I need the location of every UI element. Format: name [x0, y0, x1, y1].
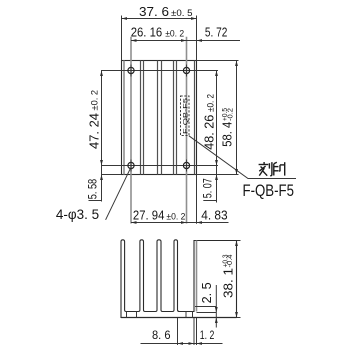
svg-text:F-QB-F5: F-QB-F5 [182, 97, 189, 134]
svg-text:±0. 2: ±0. 2 [166, 211, 185, 221]
svg-text:58. 4: 58. 4 [220, 122, 235, 147]
arrows top view [100, 17, 238, 224]
svg-text:±0. 2: ±0. 2 [90, 90, 100, 111]
svg-text:4-φ3. 5: 4-φ3. 5 [56, 206, 99, 222]
top view fin line d [161, 61, 163, 175]
svg-text:26. 16: 26. 16 [131, 25, 163, 40]
svg-text:2. 5: 2. 5 [200, 282, 214, 303]
dimension line 48.26 / 5.07 [216, 71, 218, 203]
extension line wall outer for 8.6/1.2 [193, 318, 195, 345]
hole centerline right [186, 37, 188, 224]
svg-text:47. 24: 47. 24 [86, 113, 101, 149]
arrow 2.5 top [215, 307, 218, 313]
side view outline with fins [121, 240, 237, 318]
arrows side view [178, 241, 238, 345]
dimension line 27.94 / 4.83 [131, 222, 229, 224]
notch channel1 right [136, 312, 138, 318]
svg-text:1. 2: 1. 2 [200, 328, 215, 342]
svg-text:38. 1: 38. 1 [220, 268, 235, 298]
top view fin line a [140, 61, 142, 175]
arrow 26.16 right [181, 39, 187, 42]
top view inner wall line left [123, 61, 125, 175]
arrow 8.6 left [178, 342, 184, 345]
dimension line 47.24 / 5.58 [101, 71, 103, 202]
svg-text:48. 26: 48. 26 [202, 115, 217, 150]
hole bottom-right [183, 162, 189, 168]
extension line wall inner for 1.2 [196, 318, 198, 345]
side view bottom edge emphasized [121, 317, 237, 319]
tick under 5.07 [203, 200, 216, 202]
arrow 5.72 outside [197, 39, 203, 42]
dimension line 37.6 [122, 18, 197, 20]
arrow 47.24 top [100, 71, 103, 77]
marking area dashed box [181, 96, 190, 136]
tick under 2.5 [195, 306, 216, 308]
arrow 48.26 bottom [215, 160, 218, 166]
notch channel1 left [126, 312, 128, 318]
bottom edge extension left [101, 174, 122, 176]
plate inner base line [197, 312, 217, 314]
notch channel4 left [185, 312, 187, 318]
hole centerline left [130, 37, 132, 224]
leader line to marking note [189, 136, 296, 179]
top view fin line c [157, 61, 159, 175]
svg-text:±0. 2: ±0. 2 [206, 94, 216, 112]
extension line right top [196, 16, 198, 61]
top edge extension right [197, 60, 239, 62]
note kanji kokuin (drawn as strokes: 刻印) [259, 162, 285, 176]
plate bottom extension right [237, 317, 241, 319]
svg-text:27. 94: 27. 94 [133, 207, 165, 222]
dimension line 2.5 [215, 285, 217, 328]
svg-text:5. 58: 5. 58 [86, 179, 100, 200]
arrow 48.26 top [215, 71, 218, 77]
extension line left top [121, 16, 123, 61]
arrow 58.4 bottom [235, 169, 238, 175]
arrow 47.24 bottom [100, 160, 103, 166]
leader line 4-phi3.5 [106, 169, 131, 220]
arrow 38.1 top [235, 241, 238, 247]
extension line fin4 for 8.6 [177, 318, 179, 345]
hole top-left [128, 67, 134, 73]
arrow 37.6 left [122, 17, 128, 20]
arrow 27.94 right [181, 221, 187, 224]
svg-text:8. 6: 8. 6 [152, 328, 171, 342]
svg-text:5. 72: 5. 72 [205, 24, 228, 39]
dimension line 58.4 [236, 61, 238, 175]
svg-text:-0.4: -0.4 [227, 254, 234, 267]
arrow 5.58 outside [100, 175, 103, 181]
tick under 5.58 [89, 200, 102, 202]
arrow 26.16 left [131, 39, 137, 42]
svg-text:F-QB-F5: F-QB-F5 [243, 181, 295, 200]
feature line through bottom holes [101, 165, 218, 167]
notch channel4 right [192, 312, 194, 318]
plate top extension right [237, 240, 241, 242]
top view inner wall line right [194, 61, 196, 175]
feature line through top holes [101, 70, 218, 72]
arrow 58.4 top [235, 61, 238, 67]
top view outline [122, 61, 197, 175]
arrow 2.5 bottom [215, 318, 218, 324]
svg-text:5. 07: 5. 07 [201, 178, 215, 198]
hole top-right [183, 67, 189, 73]
arrow 37.6 right [191, 17, 197, 20]
svg-text:37. 6: 37. 6 [139, 4, 169, 19]
arrow 27.94 left [131, 221, 137, 224]
dimension line 26.16 and 5.72 [131, 40, 240, 42]
arrow 38.1 bottom [235, 312, 238, 318]
svg-text:4. 83: 4. 83 [201, 208, 228, 223]
arrow 1.2 outside [197, 342, 203, 345]
arrow 5.07 outside [215, 175, 218, 181]
top view fin line e [173, 61, 175, 175]
plate inner wall line [196, 241, 198, 312]
hole bottom-left [128, 162, 134, 168]
dimension line 8.6 / 1.2 [141, 343, 223, 345]
top view fin line b [143, 61, 145, 175]
svg-text:-0.2: -0.2 [227, 108, 234, 121]
svg-text:±0. 2: ±0. 2 [165, 29, 184, 39]
top view fin line f [176, 61, 178, 175]
bottom edge extension right [197, 174, 239, 176]
arrow 4.83 outside [197, 221, 203, 224]
svg-text:±0. 5: ±0. 5 [171, 8, 193, 18]
extension line right edge bottom [196, 175, 198, 224]
arrow 8.6 right [189, 342, 195, 345]
